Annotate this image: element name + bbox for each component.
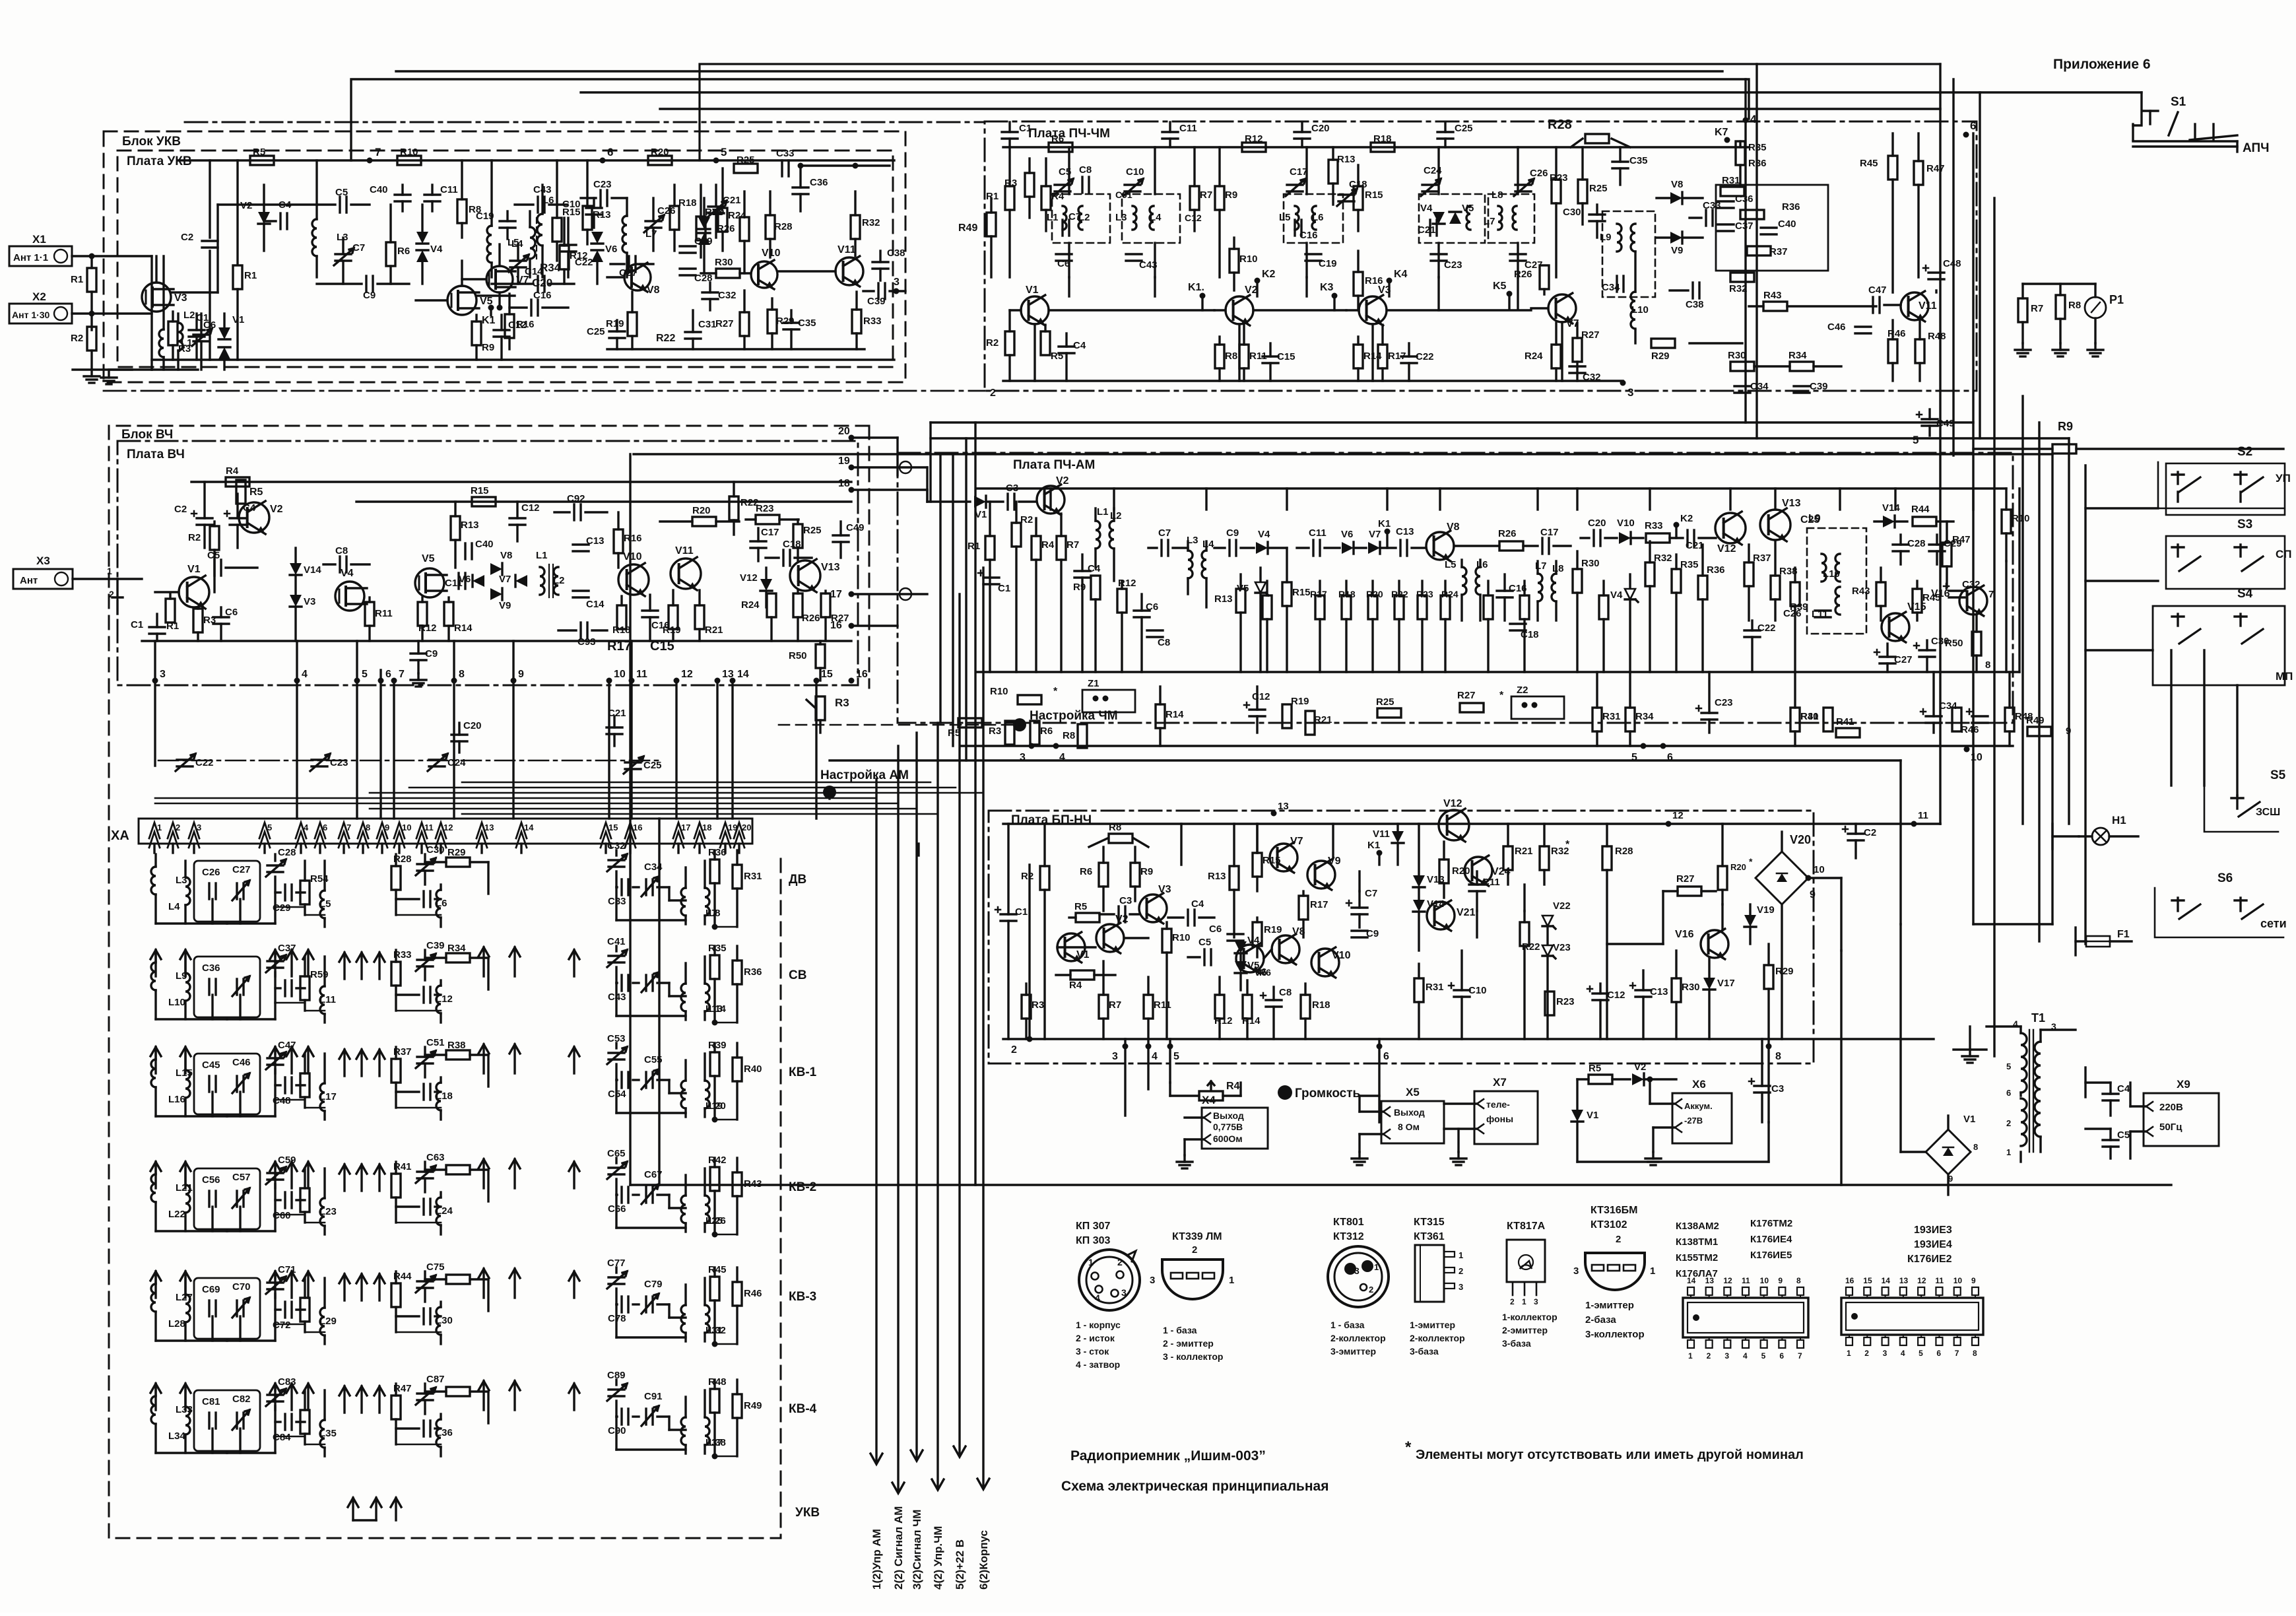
pin XA-19 [720,823,731,838]
svg-text:C3: C3 [1771,1083,1784,1094]
wire band select arrow [360,953,362,979]
svg-text:L5: L5 [508,237,519,248]
wire band select arrow [154,1271,156,1298]
svg-text:R20: R20 [1366,589,1383,599]
wire band cell B bottom [275,1099,305,1101]
capacitor C28 trimmer [274,854,276,861]
svg-text:16: 16 [1845,1276,1854,1285]
svg-text:1(2)Упр АМ: 1(2)Упр АМ [870,1529,883,1590]
svg-text:R13: R13 [1337,154,1356,165]
svg-text:R20: R20 [1730,862,1746,872]
wire band select arrow [513,1044,515,1073]
resistor R23 БП [1545,992,1554,1015]
svg-text:C5: C5 [2117,1129,2130,1141]
svg-text:R30: R30 [1728,350,1746,361]
svg-text:C77: C77 [607,1258,626,1269]
svg-text:2: 2 [1369,1285,1373,1295]
svg-text:R31: R31 [744,871,762,882]
resistor R2 ВЧ [210,526,219,550]
capacitor C27 + [1880,656,1895,657]
svg-text:R12: R12 [1245,133,1263,145]
wire band select arrow [513,1269,515,1298]
pin XA-10 [394,823,405,838]
svg-text:К138АМ2: К138АМ2 [1676,1221,1719,1232]
ground T1 [1953,1048,1986,1050]
svg-text:X4: X4 [1202,1094,1216,1106]
capacitor C20 gang [451,733,467,735]
svg-text:V12: V12 [1443,798,1462,809]
svg-text:1-эмиттер: 1-эмиттер [1585,1300,1634,1311]
wire band select arrow [482,1159,484,1188]
resistor R1 УКВ [236,160,238,264]
capacitor C84 [284,1414,286,1430]
resistor R45 [713,1267,715,1277]
svg-text:4: 4 [302,669,308,680]
svg-text:C28: C28 [1907,538,1926,549]
svg-text:C28: C28 [278,847,296,858]
svg-text:R12: R12 [1214,1015,1233,1027]
svg-text:V7: V7 [1369,529,1381,540]
resistor R12 ПЧ-ЧМ [1242,143,1266,152]
resistor R12 R14 R16 БП [1215,995,1224,1019]
svg-text:14: 14 [524,823,534,832]
capacitor C38 [872,261,888,263]
svg-text:11: 11 [636,669,647,680]
resistor R47 ПЧ-АМ [1942,543,1952,566]
svg-text:3: 3 [197,823,201,832]
wire band select arrow [343,1274,345,1300]
resistor R6 БП [1099,863,1108,887]
svg-text:R20: R20 [1452,865,1470,877]
wire band cell F bottom [615,1195,617,1228]
pins bottom ПЧ-АМ [1029,743,1035,749]
svg-text:R26: R26 [1514,269,1532,280]
transistor V9 БП [1307,861,1335,889]
svg-text:14: 14 [1687,1276,1696,1285]
svg-text:L18: L18 [436,1091,453,1102]
wire band cell B bottom [275,1214,305,1216]
svg-text:8: 8 [1973,1349,1977,1358]
capacitor C35 [783,321,799,323]
inductor L3 L4 ПЧ-АМ [1188,551,1193,578]
svg-text:R26: R26 [1498,528,1517,539]
svg-text:R30: R30 [1581,558,1600,569]
resistor R26 ВЧ [793,593,803,617]
resistor R36 [736,946,738,960]
inductor L12 [436,986,441,1013]
svg-text:C10: C10 [1126,166,1144,178]
svg-text:КВ-2: КВ-2 [789,1180,816,1194]
svg-text:R25: R25 [803,525,822,536]
svg-text:15: 15 [821,669,833,680]
inductor L5 [530,227,535,259]
svg-text:16: 16 [856,669,868,680]
svg-text:L4: L4 [1202,539,1214,550]
svg-text:6: 6 [2006,1088,2011,1098]
svg-text:Z2: Z2 [1517,685,1528,696]
wire band cell A bottom [156,1339,227,1341]
resistor R11 ПЧ-ЧМ [1239,345,1249,368]
svg-text:6: 6 [385,669,391,680]
svg-text:R38: R38 [447,1040,466,1051]
svg-text:КТ3102: КТ3102 [1591,1219,1627,1230]
capacitor C11 ПЧ-АМ [1312,540,1314,556]
varcap C22 [177,758,193,760]
svg-text:C34: C34 [1750,381,1769,392]
svg-text:C13: C13 [1650,986,1668,997]
resistor R3 ВЧ [193,609,203,632]
svg-text:L6: L6 [542,195,554,206]
resistor R37 det [1747,246,1771,255]
svg-text:C24: C24 [447,757,466,768]
resistor R26 ПЧ-ЧМ [1540,265,1549,289]
resistor R39 [713,1043,715,1052]
wire band select arrow [573,1047,575,1073]
svg-text:1: 1 [1650,1265,1655,1277]
svg-text:C40: C40 [1778,219,1796,230]
capacitor C5 mains [2103,1139,2118,1141]
capacitor C33 top right [781,160,783,176]
svg-text:1-коллектор: 1-коллектор [1502,1312,1558,1322]
inductor L38 [705,1417,709,1445]
capacitor C6 V3 [189,329,205,331]
svg-text:R34: R34 [447,943,466,954]
resistor R10 top [397,156,421,165]
svg-text:Элементы могут отсутствовать: Элементы могут отсутствовать или иметь д… [1416,1448,1804,1462]
svg-text:R24: R24 [1441,589,1459,599]
capacitor C92 [573,504,575,520]
resistor R32 det [1730,273,1754,282]
svg-text:11: 11 [1742,1276,1750,1285]
svg-text:2: 2 [1011,1044,1017,1056]
svg-text:L1: L1 [1047,212,1059,223]
svg-text:C83: C83 [278,1376,296,1388]
svg-text:6: 6 [607,146,613,158]
varcap C25 [625,761,641,763]
svg-text:V4: V4 [1420,203,1433,214]
svg-text:V2: V2 [1245,285,1258,296]
capacitor C56 [194,1168,260,1229]
svg-text:ДВ: ДВ [789,873,806,887]
svg-text:R47: R47 [1926,163,1945,174]
svg-text:C5: C5 [207,550,220,561]
resistor R20 БП [1439,859,1449,883]
svg-text:R15: R15 [1292,587,1311,598]
wire bundle 1(2)Упр АМ [875,779,877,1462]
svg-text:C79: C79 [644,1279,663,1290]
svg-text:Настройка АМ: Настройка АМ [820,768,909,782]
wire right vertical bus 1 [1939,64,1941,824]
svg-text:R5: R5 [1589,1063,1601,1074]
svg-text:K1: K1 [1367,840,1380,851]
capacitor C3 ПЧ-АМ [1006,494,1008,510]
wire АМ bus into ПЧ-АМ [926,490,928,502]
inductor L20 [705,1081,709,1108]
resistor R28 [395,854,397,866]
transistor V16 ПЧ-АМ [1959,587,1987,615]
svg-text:Блок ВЧ: Блок ВЧ [121,428,173,442]
svg-text:V10: V10 [762,248,781,259]
svg-text:X9: X9 [2177,1078,2190,1091]
svg-text:C2: C2 [174,504,187,515]
svg-text:C34: C34 [1602,282,1620,293]
svg-text:5(2)+22 В: 5(2)+22 В [954,1539,966,1590]
svg-text:R34: R34 [1788,350,1807,361]
svg-text:S1: S1 [2171,95,2186,109]
svg-text:L11: L11 [1812,609,1828,620]
wire band select arrow [154,1384,156,1410]
diode V2 УКВ [258,212,270,224]
svg-text:R15: R15 [471,485,489,496]
resistor R7 БП [1099,995,1108,1019]
svg-text:5: 5 [1913,434,1919,446]
svg-text:R48: R48 [708,1376,727,1388]
diode V6 V7 [1342,542,1354,554]
resistor R1 ВЧ [166,599,175,623]
svg-text:R13: R13 [1214,593,1233,605]
capacitor C36 det [1718,200,1734,202]
svg-text:V1: V1 [187,564,201,575]
svg-text:9: 9 [1778,1276,1783,1285]
capacitor C11 ВЧ [457,573,459,589]
svg-text:C27: C27 [232,864,251,875]
wire band select arrow [513,947,515,976]
svg-text:2(2) Сигнал АМ: 2(2) Сигнал АМ [892,1506,905,1590]
pin XA-8 [358,823,368,838]
svg-text:X2: X2 [32,290,46,303]
wire УКВ arrows bottom [352,1498,354,1520]
resistor R42 [713,1158,715,1167]
svg-text:8 Ом: 8 Ом [1398,1122,1420,1132]
transistor V2 ВЧ [239,502,269,533]
capacitor C32 trimmer [615,850,617,856]
capacitor C4 УКВ [279,213,281,229]
resistor R46 [1888,339,1897,363]
capacitor C3 БП [1117,906,1119,922]
wire pins verticals [154,641,156,681]
transistor V13 ПЧ-АМ [1760,510,1790,540]
svg-text:R4: R4 [1041,539,1055,551]
resistor R43 [736,1158,738,1172]
svg-text:R46: R46 [1887,328,1906,339]
capacitor C4 БП [1187,910,1189,926]
node 3 pin [1620,380,1626,386]
capacitor C6 ПЧ-АМ [1134,609,1150,611]
svg-text:Громкость: Громкость [1295,1087,1360,1100]
svg-text:R50: R50 [789,650,807,661]
wire band select arrow [378,953,380,979]
resistor R13 ПЧ-АМ [1236,589,1245,613]
transistor V1 БП [1057,933,1085,961]
svg-text:КТ361: КТ361 [1414,1231,1445,1242]
resistor R23 ВЧ [756,515,779,524]
svg-text:R16: R16 [624,533,642,544]
capacitor C4 ПЧ-АМ [1074,570,1090,572]
transistor V4 ВЧ FET [335,582,364,611]
svg-text:C32: C32 [718,290,737,301]
pin XA-20 [734,823,744,838]
wire ПЧ-ЧМ mid bus [1049,309,1214,311]
capacitor C25 ПЧ-ЧМ [1437,131,1453,133]
svg-text:V3: V3 [1158,884,1171,895]
transistor V5 УКВ FET [447,286,476,315]
wire band select arrow [290,950,292,976]
resistor R22 БП [1520,922,1529,946]
resistor R18 БП [1301,995,1310,1019]
svg-text:К176ИЕ4: К176ИЕ4 [1750,1234,1792,1245]
pin XA-14 [516,823,527,838]
svg-text:C9: C9 [363,290,376,301]
resistor R3 ПЧ-ЧМ [1025,173,1034,197]
svg-text:L9: L9 [1600,232,1612,243]
resistor R31 [736,850,738,865]
dash-dot gang line [158,760,660,762]
wire right vertical bus 2 [1972,133,1974,924]
svg-text:V16: V16 [1675,929,1694,940]
diode ring V6-V9 [490,563,502,575]
wire band cell A bottom [156,1115,227,1117]
wires transformer area [1840,878,1842,951]
capacitor C77 trimmer [615,1267,617,1273]
inductor L23 [320,1198,325,1226]
wire band select arrow [343,1386,345,1413]
svg-text:L4: L4 [1150,212,1162,223]
capacitor C16 [537,276,539,292]
fuse F1 [2086,936,2110,947]
svg-text:V1: V1 [975,509,987,520]
resistor R8 meter [2056,295,2065,319]
wire ПЧ-АМ top bus [977,487,2006,489]
capacitor C14 [573,589,589,591]
svg-text:R24: R24 [1525,351,1543,362]
svg-text:C15: C15 [650,639,674,654]
svg-text:L17: L17 [319,1091,337,1102]
capacitor C69 [194,1278,260,1339]
svg-text:R7: R7 [1066,539,1079,551]
resistor R27 ВЧ [821,593,830,617]
svg-text:L5: L5 [1445,559,1457,570]
resistors extra mid row ПЧ-АМ [1263,595,1272,619]
svg-text:C12: C12 [1607,990,1625,1001]
wire band select arrow [154,1047,156,1073]
svg-text:R10: R10 [990,686,1008,697]
svg-text:L2: L2 [553,575,565,586]
wire right vertical bus 4 [2021,396,2023,824]
svg-text:С11: С11 [1179,123,1197,134]
wire к V11 via R29 [1634,330,1636,343]
svg-text:R19: R19 [1291,696,1309,707]
transistor V1 ВЧ [179,577,209,607]
svg-text:R36: R36 [708,847,727,858]
svg-text:20: 20 [838,426,850,437]
svg-text:R6: R6 [1051,133,1064,145]
svg-text:фоны: фоны [1486,1114,1513,1124]
svg-text:R27: R27 [1676,873,1695,885]
transistor V7 БП [1270,844,1297,871]
svg-text:R14: R14 [1242,1015,1261,1027]
svg-text:V11: V11 [675,545,694,556]
capacitor C55 trimmer [645,1072,647,1088]
wire band select arrow [573,1384,575,1410]
svg-text:R45: R45 [708,1264,727,1275]
svg-text:C53: C53 [607,1033,626,1044]
resistor row bottom ПЧ-АМ [1018,695,1041,704]
resistor R45 [1888,156,1897,180]
wire bpnch to transformer [1840,951,1842,1185]
svg-text:V8: V8 [1447,522,1460,533]
svg-text:К155ТМ2: К155ТМ2 [1676,1252,1718,1263]
svg-text:R32: R32 [1654,553,1672,564]
svg-text:10: 10 [402,823,411,832]
diode V12 ВЧ [760,579,772,591]
svg-text:C60: C60 [273,1210,291,1221]
wire band select arrow [274,1384,276,1410]
transistor V24 БП [1464,857,1492,885]
svg-text:C69: C69 [202,1284,220,1295]
capacitor C63 trimmer [417,1170,433,1172]
resistor R27 v [740,312,749,336]
wire band select arrow [513,1381,515,1410]
pin XA-2 [168,823,178,838]
inductor L19 [681,1081,686,1108]
svg-text:R9: R9 [1140,866,1153,877]
transistor V10 УКВ [751,261,777,288]
svg-text:C56: C56 [202,1174,220,1186]
svg-text:L11: L11 [319,994,336,1005]
svg-text:C2: C2 [1864,827,1876,838]
wire band cell B bottom [275,1324,305,1326]
inductor L5 [320,891,325,918]
svg-text:K1.: K1. [1188,282,1204,293]
svg-text:L9: L9 [1808,513,1821,524]
svg-text:R15: R15 [562,207,581,218]
inductor L3 [154,854,156,866]
svg-text:R26: R26 [802,613,820,624]
capacitor C22 ПЧ-ЧМ [1401,355,1417,357]
svg-text:C75: C75 [426,1262,445,1273]
svg-text:R23: R23 [1556,996,1575,1007]
inductor L6 [436,890,441,918]
svg-text:8: 8 [1775,1051,1781,1062]
svg-text:8: 8 [1985,659,1990,671]
svg-text:R26: R26 [717,223,735,234]
svg-text:R18: R18 [1338,589,1356,599]
wire band cell R bottom [715,1119,737,1121]
wire band select arrow [184,1384,186,1410]
wire bundle 5(2)+22 В [958,594,960,1454]
svg-text:C15: C15 [1277,351,1296,362]
svg-text:R40: R40 [744,1063,762,1075]
transistor V8 УКВ [624,264,651,290]
wire band cell R bottom [715,1456,737,1458]
svg-text:R37: R37 [393,1046,412,1058]
svg-text:R42: R42 [708,1155,727,1166]
svg-text:1 - база: 1 - база [1163,1325,1197,1335]
transistor V8 ПЧ-АМ [1426,532,1454,560]
resistor R14 ПЧ-ЧМ [1354,345,1363,368]
svg-text:R3: R3 [835,696,849,709]
capacitor C5 БП [1203,949,1205,965]
svg-text:S2: S2 [2237,445,2252,459]
wire band select arrow [154,1162,156,1188]
svg-text:2-коллектор: 2-коллектор [1330,1333,1386,1343]
transistor V12 ПЧ-АМ [1715,513,1746,543]
svg-text:X7: X7 [1493,1076,1507,1089]
resistor R1 ПЧ-ЧМ [1005,186,1014,210]
svg-text:R44: R44 [393,1271,412,1282]
svg-text:C17: C17 [761,527,779,538]
wire БП-НЧ top bus [1003,823,1940,825]
